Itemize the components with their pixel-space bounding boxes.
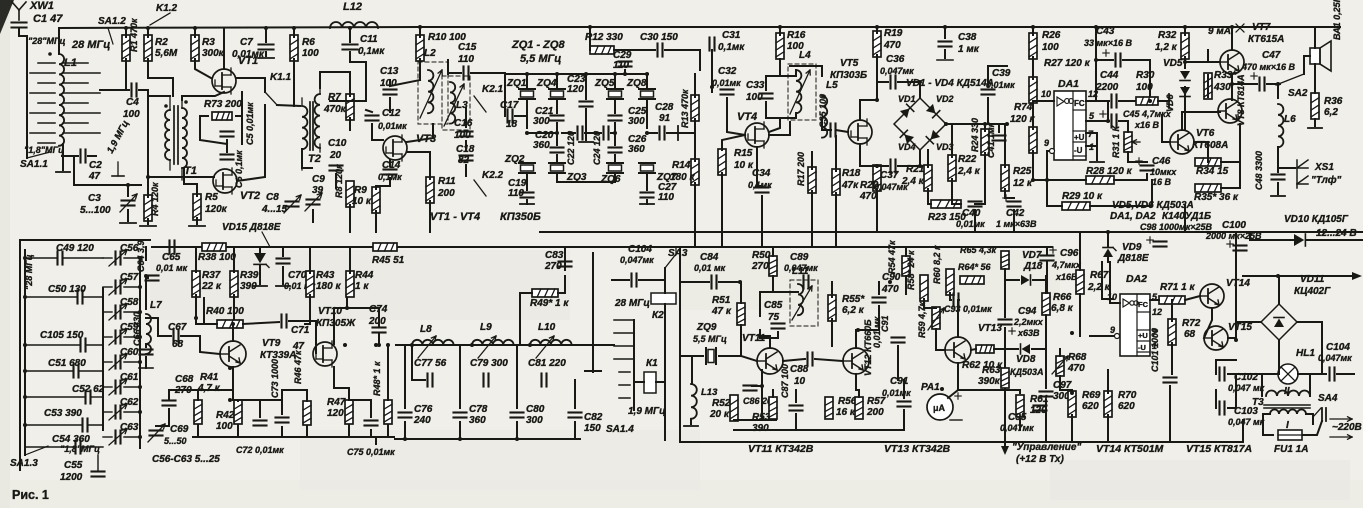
- capacitor C24: [592, 127, 609, 166]
- wire VD8 out: [1032, 348, 1046, 350]
- wire: [429, 201, 431, 232]
- svg-text:ZQ9: ZQ9: [696, 322, 717, 333]
- resistor R10: [416, 32, 466, 61]
- wire R25 up: [1004, 124, 1006, 167]
- svg-text:КП303Б: КП303Б: [830, 70, 867, 81]
- wire T2 bottom: [302, 149, 312, 168]
- svg-text:4,7мкх: 4,7мкх: [1051, 260, 1082, 270]
- wire: [375, 439, 377, 444]
- wire R67 up: [1079, 232, 1081, 270]
- bridge VD11: [1261, 274, 1331, 340]
- svg-text:С95: С95: [1008, 412, 1027, 423]
- junction: [1031, 178, 1035, 182]
- op-amp DA1: [1041, 78, 1098, 160]
- junction: [760, 384, 764, 388]
- svg-text:DA2: DA2: [1126, 273, 1147, 285]
- wire DA2 pin10: [1110, 262, 1120, 303]
- wire VT6 base: [1162, 115, 1170, 142]
- capacitor C101: [1150, 328, 1177, 383]
- resistor R52: [709, 395, 738, 421]
- wire: [526, 74, 528, 88]
- capacitor C70: [277, 259, 316, 292]
- label 1.9MHz: [628, 406, 666, 417]
- wire: [614, 155, 616, 162]
- transistor VT3 FET: [383, 133, 436, 161]
- svg-text:R70: R70: [1118, 390, 1137, 401]
- wire R46 dn: [306, 426, 308, 437]
- junction: [377, 343, 381, 347]
- wire R14 dn: [694, 183, 696, 247]
- wire R70 up: [1107, 370, 1109, 393]
- capacitor C45 electrolytic: [1100, 109, 1172, 130]
- wire bottom ground bus: [680, 441, 1243, 443]
- svg-text:R37: R37: [202, 270, 221, 281]
- wire bridge right: [1297, 322, 1322, 374]
- wire R61 up: [1019, 390, 1021, 393]
- wire: [761, 386, 763, 420]
- svg-text:R50: R50: [752, 250, 771, 261]
- svg-text:R31 1 К: R31 1 К: [1111, 124, 1121, 158]
- capacitor C21: [533, 106, 564, 127]
- wire R47 gnd: [348, 425, 350, 437]
- svg-text:C30 150: C30 150: [640, 32, 678, 43]
- wire VT3 src: [429, 160, 431, 179]
- svg-text:R15: R15: [734, 148, 753, 159]
- wire VT4 gate: [722, 135, 745, 150]
- terminal bar: [1168, 94, 1170, 108]
- wire VT5 src: [860, 144, 877, 166]
- svg-text:Д818Е: Д818Е: [1117, 253, 1149, 264]
- wire: [349, 247, 351, 273]
- diode VD15 symbol: [254, 253, 269, 267]
- lamp HL1: [1278, 348, 1315, 397]
- wire: [88, 155, 96, 157]
- capacitor C5: [221, 102, 256, 145]
- inductor L12: [330, 1, 378, 28]
- svg-text:5...100: 5...100: [80, 205, 111, 216]
- junction: [1183, 25, 1187, 29]
- svg-text:110: 110: [458, 54, 474, 65]
- svg-text:C89: C89: [790, 252, 809, 263]
- wire SA2 speaker: [1304, 56, 1310, 74]
- wire T2 top: [320, 72, 350, 96]
- wire R68 R69: [1060, 376, 1072, 393]
- resistor R67: [1076, 270, 1111, 294]
- wire: [876, 55, 878, 80]
- svg-text:120: 120: [327, 408, 344, 419]
- svg-text:"28"МГц: "28"МГц: [28, 36, 66, 46]
- wire band tap: [619, 384, 630, 386]
- wire: [1096, 133, 1098, 160]
- wire: [349, 118, 351, 130]
- ground: [520, 203, 534, 205]
- wire C12 to VT3: [372, 124, 383, 140]
- wire VD6 VT6: [1184, 99, 1186, 130]
- wire R74 R28: [1033, 151, 1047, 180]
- svg-text:470: 470: [859, 191, 877, 202]
- svg-text:ХS1: ХS1: [1314, 162, 1334, 173]
- wire R63 dn: [1004, 389, 1006, 446]
- junction: [584, 72, 588, 76]
- capacitor C46 electrolytic: [1136, 156, 1177, 187]
- svg-text:КП350Б: КП350Б: [500, 211, 541, 223]
- wire: [1005, 189, 1014, 198]
- wire control mid: [1004, 328, 1006, 367]
- wire gnd row mic: [734, 429, 904, 431]
- resistor R66: [1042, 292, 1074, 315]
- wire C4 rail: [139, 90, 148, 177]
- wire L5 to C35: [822, 118, 830, 130]
- resistor R73: [204, 99, 242, 120]
- svg-text:+U: +U: [1138, 331, 1148, 340]
- wire: [944, 50, 946, 58]
- svg-text:0,047 мк: 0,047 мк: [1228, 417, 1265, 427]
- wire C91b dn: [903, 410, 905, 430]
- label VD6: [1165, 93, 1175, 112]
- relay K1: [644, 358, 658, 393]
- svg-text:0,1мк: 0,1мк: [358, 46, 385, 57]
- svg-text:C8: C8: [266, 192, 279, 203]
- svg-text:360: 360: [533, 140, 550, 151]
- svg-text:28 МГц: 28 МГц: [614, 298, 650, 309]
- svg-text:C40: C40: [962, 208, 981, 219]
- capacitor C31: [710, 30, 746, 53]
- wire L5 C35: [822, 118, 831, 130]
- svg-text:С64 3,9: С64 3,9: [136, 240, 146, 272]
- svg-text:FU1 1А: FU1 1А: [1274, 444, 1308, 455]
- wire bank box top: [20, 239, 150, 241]
- resistor R58: [906, 250, 928, 301]
- capacitor C103: [1220, 402, 1265, 428]
- wire: [1096, 59, 1113, 61]
- svg-text:R1 470к: R1 470к: [129, 18, 139, 52]
- label VD1-VD4: [906, 78, 994, 89]
- wire: [1228, 374, 1236, 408]
- svg-text:L10: L10: [538, 322, 556, 333]
- svg-text:300: 300: [628, 116, 645, 127]
- diode VD7: [1021, 250, 1043, 285]
- wire VT7 base: [1185, 61, 1220, 63]
- svg-text:200: 200: [866, 407, 884, 418]
- svg-text:VT8 КТ814А: VT8 КТ814А: [1236, 74, 1246, 126]
- wire bandpass top: [396, 344, 580, 346]
- junction: [1094, 25, 1098, 29]
- capacitor trimmer C62: [103, 397, 140, 420]
- svg-text:R4 120к: R4 120к: [150, 182, 160, 216]
- svg-text:VT11 КТ342В: VT11 КТ342В: [748, 443, 814, 455]
- wire R31 C46: [1128, 152, 1147, 162]
- wire band tap: [619, 371, 630, 373]
- junction: [613, 131, 617, 135]
- junction: [983, 122, 987, 126]
- junction: [292, 26, 296, 30]
- svg-text:R5: R5: [205, 192, 218, 203]
- wire: [646, 74, 648, 88]
- wire R71 VT14: [1185, 296, 1200, 300]
- svg-text:C82: C82: [584, 412, 603, 423]
- resistor R13: [680, 89, 699, 128]
- label VD5 VD6 types: [1110, 200, 1211, 222]
- svg-text:R69: R69: [1082, 390, 1101, 401]
- ground: [253, 285, 267, 287]
- junction: [710, 85, 714, 89]
- capacitor C75: [347, 421, 395, 458]
- svg-text:VT2: VT2: [240, 190, 260, 202]
- ground: [56, 171, 70, 173]
- svg-text:C104: C104: [628, 244, 652, 255]
- resistor R3: [191, 35, 225, 61]
- svg-text:430: 430: [1213, 82, 1231, 93]
- svg-text:0,01 мк: 0,01 мк: [156, 263, 188, 273]
- svg-text:0,01 мк: 0,01 мк: [694, 263, 726, 273]
- wire R34: [1221, 124, 1240, 162]
- wire: [233, 247, 235, 272]
- svg-text:ZQ8: ZQ8: [626, 78, 647, 89]
- capacitor C18: [456, 144, 475, 166]
- wire: [226, 140, 228, 152]
- crystal ZQ7: [639, 163, 677, 183]
- junction: [345, 306, 349, 310]
- resistor R8: [334, 164, 354, 207]
- wire L7 C66: [145, 344, 147, 347]
- wire VT2 gate feed: [148, 176, 214, 178]
- svg-text:C83: C83: [545, 250, 564, 261]
- svg-text:С75 0,01мк: С75 0,01мк: [347, 447, 395, 457]
- capacitor C90: [873, 272, 901, 303]
- junction: [1070, 391, 1074, 395]
- svg-text:C3: C3: [88, 193, 101, 204]
- junction: [918, 80, 922, 84]
- resistor R71: [1159, 282, 1195, 304]
- label ZQ1-ZQ8: [511, 39, 565, 65]
- junction: [144, 274, 148, 278]
- svg-text:C86 20: C86 20: [743, 396, 772, 406]
- junction: [1094, 58, 1098, 62]
- wire R21 up: [927, 150, 929, 167]
- ground: [139, 367, 153, 369]
- svg-text:33 мк×16 В: 33 мк×16 В: [1084, 38, 1132, 48]
- wire: [589, 27, 591, 50]
- wire: [195, 295, 197, 300]
- svg-text:х16В: х16В: [1055, 272, 1078, 282]
- capacitor C26: [609, 134, 647, 155]
- wire: [757, 185, 762, 187]
- wire mic in a: [686, 281, 709, 283]
- svg-text:ВА1 0,25ГД1: ВА1 0,25ГД1: [1332, 0, 1342, 40]
- svg-text:20 к: 20 к: [709, 409, 730, 420]
- capacitor C98 electrolytic: [1140, 222, 1213, 247]
- wire: [574, 422, 576, 439]
- label figure: [12, 488, 49, 502]
- junction: [458, 437, 462, 441]
- resistor R74: [1010, 102, 1037, 153]
- diode VD5 pair: [1163, 58, 1190, 97]
- svg-text:K1.2: K1.2: [156, 3, 178, 14]
- wire: [265, 28, 267, 42]
- wire tank left: [759, 292, 761, 316]
- wire VT11 coll tank: [760, 330, 770, 348]
- wire: [556, 155, 558, 162]
- inductor L8: [412, 324, 454, 358]
- svg-text:R42: R42: [216, 410, 235, 421]
- wire C42 gnd: [1013, 210, 1015, 232]
- transistor VT6: [1170, 128, 1228, 154]
- capacitor C4: [123, 84, 140, 121]
- wire rail down: [664, 304, 666, 440]
- svg-text:C60: C60: [120, 347, 139, 358]
- wire C33 top: [766, 70, 796, 90]
- svg-text:R51: R51: [712, 295, 731, 306]
- wire control top: [1004, 280, 1006, 317]
- wire R18 gnd: [835, 193, 837, 247]
- svg-text:C34: C34: [752, 168, 771, 179]
- transistor VT14: [1200, 278, 1250, 308]
- capacitor C10: [328, 138, 347, 171]
- svg-text:R36: R36: [1324, 96, 1343, 107]
- svg-text:-U: -U: [1074, 146, 1083, 155]
- svg-text:R40 100: R40 100: [206, 306, 244, 317]
- wire: [952, 179, 961, 204]
- svg-text:100: 100: [1136, 82, 1153, 93]
- resistor R40: [206, 306, 244, 328]
- transistor VT8: [1218, 74, 1246, 126]
- wire SA1.4 rail: [633, 320, 635, 410]
- svg-text:C93 0,01мк: C93 0,01мк: [944, 304, 992, 314]
- inductor L9: [472, 322, 514, 358]
- capacitor trimmer C61: [103, 372, 140, 395]
- svg-text:5,5 МГц: 5,5 МГц: [693, 334, 727, 344]
- svg-text:C4: C4: [126, 97, 139, 108]
- resistor R70: [1104, 390, 1137, 417]
- wire VD9 dn: [1107, 258, 1109, 262]
- wire: [259, 247, 261, 252]
- svg-text:R68: R68: [1068, 352, 1087, 363]
- wire: [526, 200, 528, 204]
- wire R48 dn: [387, 425, 389, 437]
- resistor R44: [346, 270, 374, 297]
- svg-text:300: 300: [533, 116, 550, 127]
- svg-text:SA1.2: SA1.2: [98, 16, 126, 27]
- wire R40 l: [204, 298, 217, 324]
- svg-text:R45 51: R45 51: [372, 255, 405, 266]
- wire: [779, 27, 781, 35]
- svg-text:VT5: VT5: [840, 58, 859, 69]
- wire R72 C101: [1171, 343, 1173, 374]
- wire to SA1.4: [580, 344, 614, 346]
- capacitor C43 electrolytic: [1084, 26, 1132, 67]
- wire fuse to SA4: [1303, 421, 1322, 435]
- wire: [265, 52, 267, 56]
- resistor R69: [1068, 390, 1101, 417]
- svg-text:C63: C63: [120, 422, 139, 433]
- wire R17 up: [811, 152, 813, 169]
- svg-text:100: 100: [123, 109, 140, 120]
- junction: [875, 98, 879, 102]
- wire bias2: [236, 116, 242, 144]
- wire C2 down: [73, 156, 75, 185]
- junction: [124, 26, 128, 30]
- capacitor C52: [25, 384, 105, 404]
- junction: [470, 343, 474, 347]
- wire: [876, 166, 878, 167]
- svg-text:ZQ6: ZQ6: [600, 174, 621, 185]
- wire VD10: [1250, 232, 1294, 240]
- svg-text:DA1: DA1: [1058, 78, 1079, 90]
- junction: [126, 183, 130, 187]
- wire C104 out: [1337, 373, 1354, 375]
- capacitor C79: [470, 358, 508, 387]
- svg-text:0,01 мк: 0,01 мк: [872, 316, 882, 348]
- resistor R29: [1062, 191, 1103, 210]
- wire L1 taps right: [48, 52, 100, 133]
- capacitor C89: [784, 252, 818, 289]
- svg-text:200: 200: [368, 316, 386, 327]
- svg-text:R30: R30: [1136, 70, 1155, 81]
- junction: [888, 280, 892, 284]
- svg-text:C28: C28: [655, 102, 674, 113]
- junction: [1106, 119, 1110, 123]
- svg-text:К140УД1Б: К140УД1Б: [1162, 211, 1211, 222]
- wire VT3 src R11: [407, 152, 430, 179]
- wire C3 row: [74, 184, 141, 186]
- capacitor C11: [343, 34, 386, 57]
- wire C74 up: [378, 308, 380, 327]
- svg-text:100: 100: [1042, 42, 1059, 53]
- jack XS1: [1297, 160, 1342, 188]
- inductor L10: [530, 322, 572, 358]
- svg-text:VT14 КТ501М: VT14 КТ501М: [1096, 443, 1164, 455]
- resistor R45: [372, 243, 405, 266]
- wire: [1207, 50, 1209, 62]
- wire bank left rail: [24, 250, 26, 455]
- wire: [711, 50, 713, 87]
- wire R54 dn: [905, 276, 907, 294]
- wire: [646, 200, 648, 204]
- svg-text:C65: C65: [162, 252, 181, 263]
- resistor R37: [192, 270, 222, 297]
- svg-text:C5 0,01мк: C5 0,01мк: [245, 102, 255, 145]
- wire: [1123, 59, 1150, 61]
- svg-text:К1: К1: [646, 358, 658, 369]
- svg-text:~220В: ~220В: [1332, 422, 1362, 433]
- wire DA2 R71: [1150, 299, 1159, 301]
- resistor R20: [859, 165, 881, 202]
- wire L6 top: [1277, 84, 1279, 98]
- wire: [147, 219, 149, 224]
- resistor R33: [1204, 70, 1237, 99]
- wire VT1 out: [236, 77, 265, 79]
- junction: [623, 72, 627, 76]
- capacitor C12: [366, 108, 408, 131]
- capacitor C42 electrolytic: [996, 195, 1037, 229]
- capacitor trimmer C59: [103, 322, 140, 345]
- wire bridge HL1: [1278, 340, 1280, 374]
- svg-text:100: 100: [216, 421, 233, 432]
- capacitor C36: [880, 54, 914, 89]
- svg-text:180 к: 180 к: [670, 172, 695, 183]
- svg-text:C100: C100: [1222, 220, 1246, 231]
- wire lamp row right: [1298, 373, 1326, 375]
- wire L6 C48: [1277, 147, 1279, 172]
- resistor R17: [796, 152, 816, 193]
- wire cap 405: [404, 345, 406, 408]
- svg-text:2,2мкх: 2,2мкх: [1013, 317, 1044, 327]
- wire speaker R36: [1314, 64, 1316, 93]
- resistor R14: [670, 159, 699, 185]
- wire: [309, 247, 311, 273]
- wire: [419, 27, 421, 37]
- junction: [1234, 338, 1238, 342]
